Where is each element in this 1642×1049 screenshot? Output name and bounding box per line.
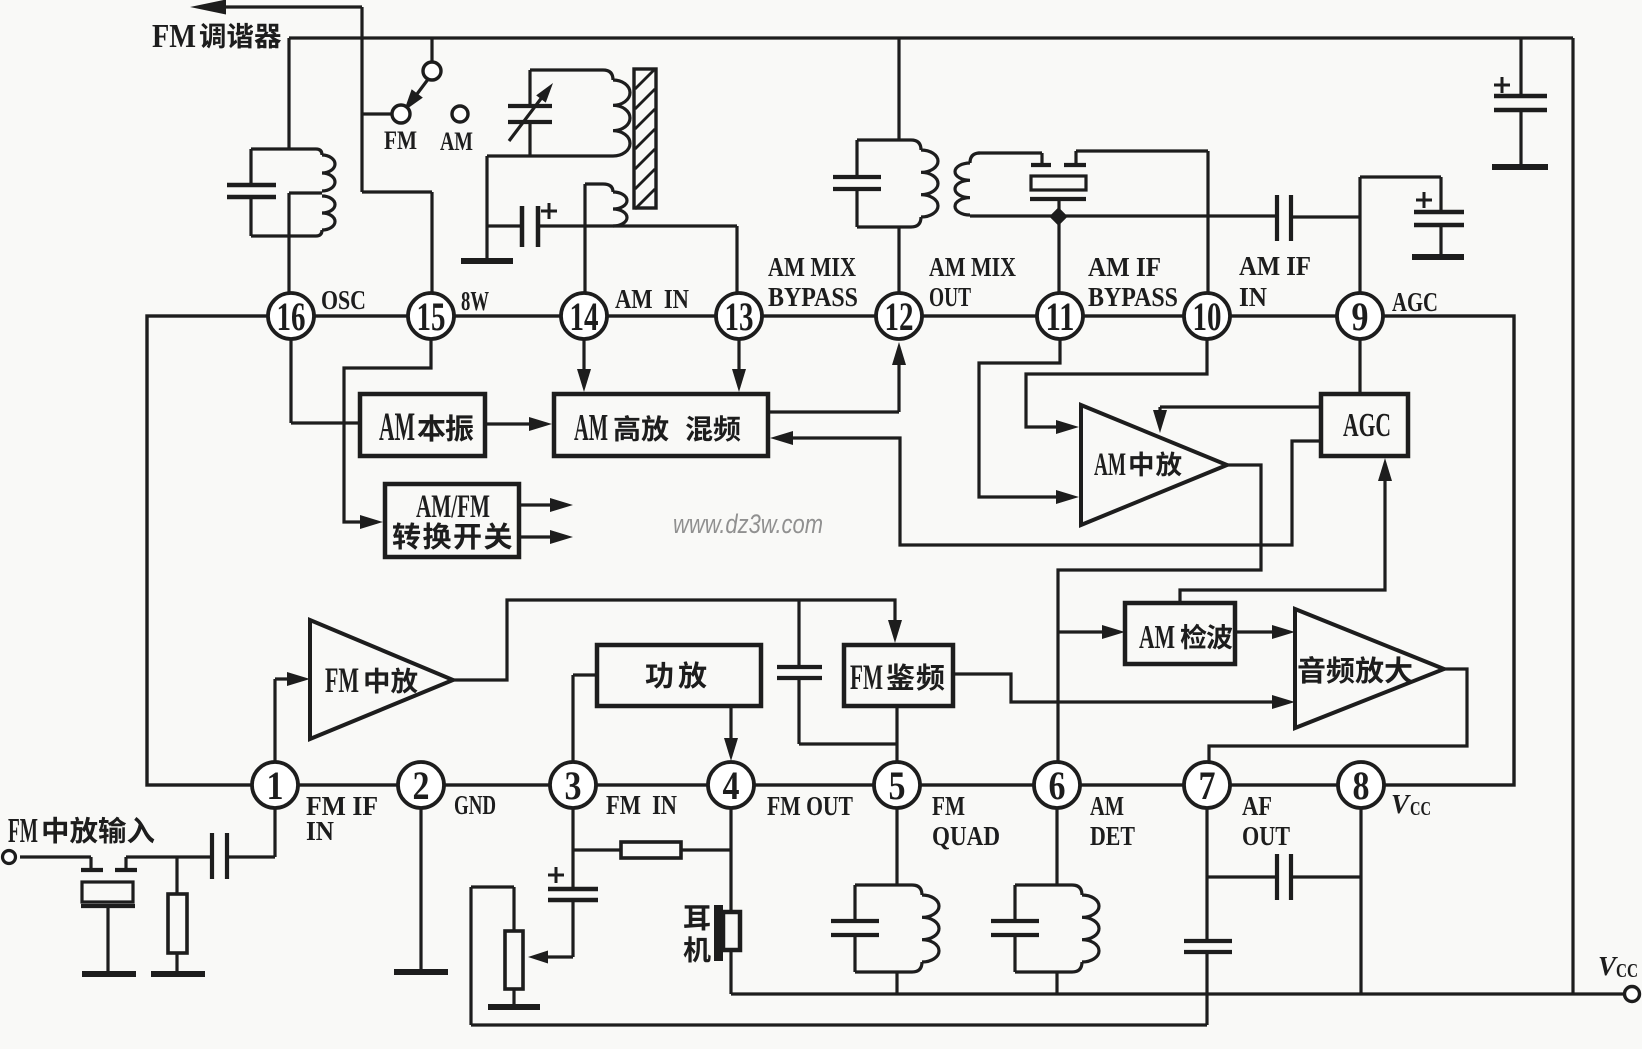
capacitor C7 (electrolytic supply) [1519, 38, 1522, 95]
wire mixer out to pin 12 [768, 410, 899, 413]
block power amp (gongfang) [597, 645, 761, 706]
pin 7 [1184, 762, 1230, 808]
svg-text:CC: CC [1410, 798, 1431, 820]
op-amp AM IF amplifier (AM zhongfang) [1081, 405, 1227, 525]
op-amp audio amplifier (yinpin fangda) [1295, 609, 1444, 728]
wire [362, 190, 432, 193]
svg-text:OUT: OUT [1242, 821, 1290, 851]
svg-text:2: 2 [413, 763, 430, 808]
svg-text:AM: AM [440, 127, 473, 156]
capacitor C1 (OSC tank) [249, 149, 252, 184]
svg-text:OUT: OUT [929, 282, 971, 312]
wire AGC to mixer [778, 438, 1321, 545]
wire [126, 855, 212, 858]
wire pin 4 to earphone [729, 808, 732, 912]
switch S1 FM contact (top) [430, 38, 433, 62]
svg-text:8W: 8W [461, 286, 489, 316]
pin 1 [252, 762, 298, 808]
wire [978, 151, 1042, 154]
wire to potentiometer wiper [536, 955, 573, 958]
capacitor C12 (AM det tank) [1013, 885, 1016, 920]
wire to pin 13 [538, 224, 737, 227]
wire [20, 855, 91, 858]
ground [151, 971, 205, 977]
wire to AM detector [1058, 630, 1117, 633]
svg-text:14: 14 [570, 294, 599, 339]
inductor L7 (AM det tank) [1015, 885, 1082, 895]
wire pin 8 riser [1359, 808, 1362, 994]
wire [1360, 175, 1441, 178]
wire to pin 1 [227, 855, 275, 858]
svg-text:QUAD: QUAD [932, 821, 1000, 851]
inductor L3 (antenna secondary) [585, 184, 613, 192]
wire filter out to pin 10 [1076, 149, 1208, 152]
wire coil tap to pin 16 [289, 191, 322, 194]
wire AM det to AGC with arrow [1180, 465, 1385, 603]
svg-text:10: 10 [1193, 294, 1222, 339]
ferrite rod antenna [634, 69, 656, 208]
wire pin10 to AM IF amp [1026, 340, 1207, 427]
op-amp FM IF amplifier (FM zhongfang) [310, 620, 453, 739]
wire AM/FM switch outputs [519, 503, 565, 506]
capacitor C13 (AF bypass) [1184, 939, 1232, 943]
wire pin9 to AGC [1358, 340, 1361, 394]
svg-text:FM: FM [152, 18, 196, 55]
wire FM IF amp output [453, 600, 895, 680]
wire FM disc to pin 5 [895, 706, 898, 762]
ground [1412, 254, 1464, 260]
IC U1 body [147, 316, 1514, 785]
wire AM IF bus [970, 214, 1277, 217]
wire pin3 to power amp [571, 675, 574, 762]
resistor R2 [573, 848, 621, 851]
pin 10 [1184, 293, 1230, 339]
svg-text:AM IN: AM IN [615, 284, 689, 314]
ground [394, 969, 448, 975]
pin 13 [716, 293, 762, 339]
wire top supply bus [289, 36, 1573, 39]
wire pin13 into mixer [737, 340, 740, 384]
svg-text:11: 11 [1046, 294, 1075, 339]
pin 9 [1337, 293, 1383, 339]
wire VCC rail right edge [1571, 38, 1574, 995]
wire pin1 to FM IF amp [273, 679, 276, 762]
block AM/FM switch [385, 484, 519, 557]
wire [895, 972, 898, 994]
switch S1 pole arm with arrow [411, 78, 429, 102]
svg-text:15: 15 [417, 294, 446, 339]
wire pin 5 riser [895, 808, 898, 885]
wire to FM tuner with arrow [205, 5, 362, 8]
svg-text:AM: AM [1094, 447, 1126, 483]
svg-text:V: V [1391, 789, 1411, 819]
wire bottom return bus [471, 1023, 1207, 1026]
wire pin14 into mixer [582, 340, 585, 384]
pin 5 [874, 762, 920, 808]
node FM IF input terminal [3, 851, 16, 864]
capacitor C5 (AM IF coupling) [1275, 195, 1279, 241]
wire AM osc to mixer with arrow [485, 422, 544, 425]
ground [488, 1004, 540, 1010]
pin 4 [708, 762, 754, 808]
switch S1 AM contact [452, 106, 468, 122]
svg-text:BYPASS: BYPASS [768, 282, 858, 312]
svg-text:CC: CC [1616, 960, 1638, 982]
wire power amp to pin 4 [729, 706, 732, 754]
pin 12 [876, 293, 922, 339]
svg-text:1: 1 [267, 763, 284, 808]
ceramic filter CF2 (FM IF) [89, 857, 92, 869]
svg-text:FM: FM [932, 791, 965, 821]
pin 14 [561, 293, 607, 339]
inductor L1 (OSC coil, tapped) [251, 147, 316, 150]
svg-text:13: 13 [725, 294, 754, 339]
svg-text:AF: AF [1242, 791, 1272, 821]
wire [360, 7, 363, 192]
svg-text:6: 6 [1049, 763, 1066, 808]
svg-text:12: 12 [885, 294, 914, 339]
svg-text:AM: AM [574, 407, 608, 449]
wire pin 14 riser [583, 184, 586, 294]
pin 3 [550, 762, 596, 808]
svg-text:16: 16 [277, 294, 306, 339]
variable capacitor C2 [528, 70, 531, 105]
capacitor C14 (AF out coupling) [1207, 875, 1277, 878]
capacitor C9 (FM IF coupling) [210, 833, 214, 879]
resistor R1 [175, 857, 178, 894]
wire pin 11 riser [1057, 216, 1060, 294]
wire [729, 949, 732, 994]
svg-text:BYPASS: BYPASS [1088, 282, 1178, 312]
wire AGC to AM IF amp (top) [1160, 405, 1321, 408]
capacitor C6 (electrolytic AGC) [1414, 210, 1464, 215]
block AM RF mixer (AM gaofang hunpin) [554, 394, 768, 456]
wire pin 12 riser to bus [897, 38, 900, 140]
wire pin15 to AM/FM switch block [344, 340, 431, 522]
pin 2 [398, 762, 444, 808]
wire pin 3 [571, 808, 574, 850]
pin 16 [268, 293, 314, 339]
wire audio amp out to pin 7 [1209, 669, 1467, 762]
svg-text:AM: AM [1090, 791, 1124, 821]
svg-text:GND: GND [454, 790, 496, 820]
earphone (erji) [714, 905, 723, 961]
svg-text:9: 9 [1352, 294, 1369, 339]
pin 6 [1034, 762, 1080, 808]
inductor L2 (antenna primary) [530, 70, 613, 80]
capacitor C11 (FM quad tank) [853, 885, 856, 920]
svg-text:www.dz3w.com: www.dz3w.com [673, 509, 823, 539]
inductor L5 (AM IF) [970, 153, 980, 163]
pin 11 [1037, 293, 1083, 339]
capacitor C8 (FM quad coupling) [797, 600, 800, 666]
svg-text:3: 3 [565, 763, 582, 808]
ground [485, 226, 488, 258]
junction [1049, 207, 1067, 225]
svg-text:AM IF: AM IF [1239, 251, 1311, 281]
potentiometer RP1 [505, 931, 523, 989]
ceramic filter CF1 [1040, 153, 1043, 164]
svg-text:FM: FM [325, 660, 359, 700]
capacitor C3 (electrolytic, AM bypass) [485, 156, 488, 226]
wire pin 6 riser [1055, 808, 1058, 885]
svg-text:AGC: AGC [1392, 287, 1438, 317]
wire [430, 192, 433, 294]
svg-text:FM: FM [8, 811, 38, 850]
wire to pin 9 [1291, 215, 1360, 218]
block FM discriminator (FM jianpin) [844, 645, 953, 706]
svg-text:FM OUT: FM OUT [767, 791, 853, 821]
pin 8 [1338, 762, 1384, 808]
svg-text:OSC: OSC [321, 285, 366, 315]
svg-text:V: V [1598, 951, 1618, 981]
block AGC [1321, 394, 1408, 456]
svg-text:AM IF: AM IF [1088, 252, 1161, 282]
wire pin16 to AM osc [289, 340, 292, 423]
wire FM disc output to audio amp [953, 674, 1287, 702]
wire pole to OSC line [362, 112, 392, 115]
svg-text:AM: AM [1139, 619, 1175, 656]
svg-text:DET: DET [1090, 821, 1135, 851]
node VCC terminal [1625, 987, 1640, 1002]
inductor L6 (FM quad tank) [855, 885, 922, 895]
wire pin 7 riser [1205, 808, 1208, 940]
wire [1055, 972, 1058, 994]
wire AM det to audio amp [1235, 630, 1287, 633]
wire AM IF amp output [1058, 465, 1261, 762]
svg-text:IN: IN [1239, 282, 1267, 312]
capacitor C10 (electrolytic, volume) [571, 850, 574, 888]
svg-text:4: 4 [723, 763, 740, 808]
svg-text:AGC: AGC [1343, 407, 1391, 444]
inductor L4 (mixer out tank) [857, 140, 921, 150]
wire to pin 12 [897, 227, 900, 294]
svg-text:FM IN: FM IN [606, 790, 677, 820]
capacitor C4 (mixer out tank) [855, 140, 858, 176]
svg-text:IN: IN [306, 816, 334, 846]
ground [82, 971, 136, 977]
block AM detector (AM jianbo) [1125, 603, 1235, 664]
ground [1492, 164, 1548, 170]
block AM local osc (AM ben zhen) [360, 394, 485, 456]
svg-text:AM/FM: AM/FM [416, 489, 490, 525]
wire [799, 742, 897, 745]
svg-text:FM: FM [850, 657, 883, 697]
svg-text:FM: FM [384, 126, 417, 155]
svg-text:AM MIX: AM MIX [768, 252, 856, 282]
svg-text:8: 8 [1353, 763, 1370, 808]
svg-text:7: 7 [1199, 763, 1216, 808]
svg-text:5: 5 [889, 763, 906, 808]
wire pin 2 to ground [419, 808, 422, 969]
wire pin11 to AM IF amp [979, 340, 1071, 497]
wire [287, 38, 290, 149]
svg-text:AM MIX: AM MIX [929, 252, 1016, 282]
pin 15 [408, 293, 454, 339]
svg-text:AM: AM [379, 404, 415, 449]
wire bottom bus [731, 992, 1625, 995]
